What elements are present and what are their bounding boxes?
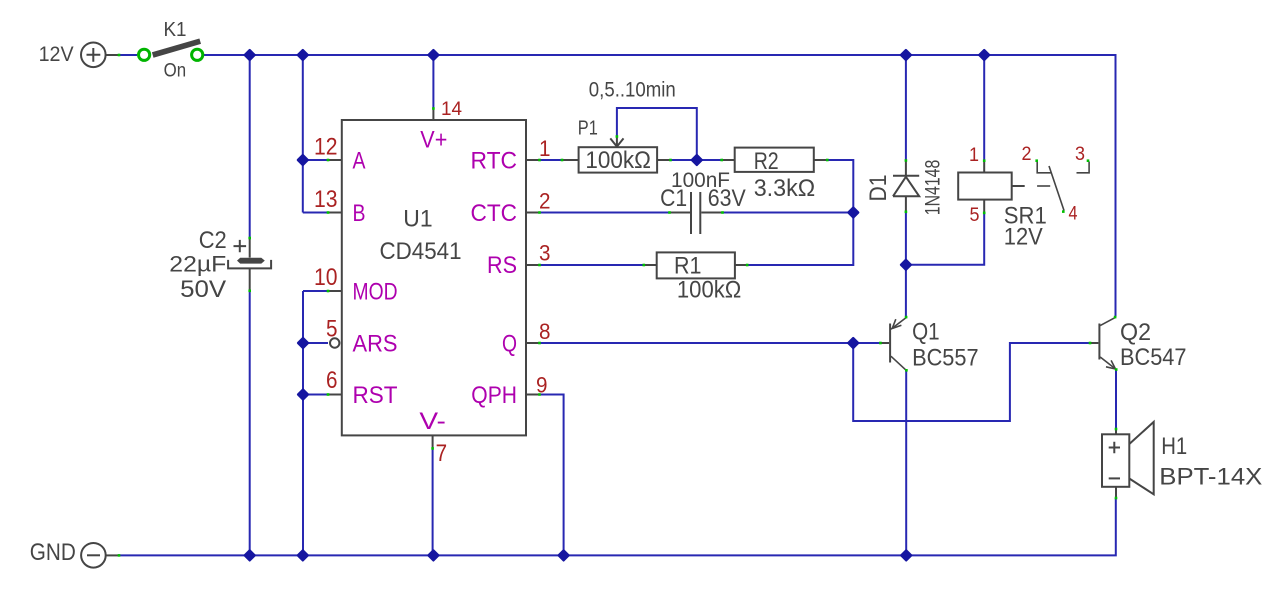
svg-text:14: 14 [441,99,462,120]
svg-text:R1: R1 [674,253,702,280]
svg-text:8: 8 [539,319,551,344]
svg-text:CTC: CTC [471,200,518,227]
svg-text:BPT-14X: BPT-14X [1159,464,1262,491]
svg-text:5: 5 [970,205,980,226]
svg-text:K1: K1 [164,19,187,41]
svg-text:Q: Q [502,330,517,357]
svg-text:4: 4 [1069,204,1078,225]
svg-text:On: On [164,60,187,81]
svg-text:3.3kΩ: 3.3kΩ [754,175,816,202]
svg-text:6: 6 [326,367,338,394]
svg-text:P1: P1 [578,118,598,140]
svg-text:D1: D1 [865,175,892,202]
svg-text:12: 12 [314,134,338,161]
svg-text:R2: R2 [754,148,779,175]
svg-text:63V: 63V [708,185,746,212]
svg-text:ARS: ARS [353,330,398,357]
svg-text:RS: RS [487,252,517,279]
svg-text:9: 9 [536,373,548,398]
svg-text:GND: GND [30,539,76,566]
svg-text:13: 13 [314,186,338,213]
svg-text:0,5..10min: 0,5..10min [589,79,676,102]
svg-text:V+: V+ [420,127,447,154]
svg-text:H1: H1 [1161,433,1187,460]
svg-text:100kΩ: 100kΩ [677,277,741,304]
svg-text:BC547: BC547 [1120,344,1187,371]
svg-text:1: 1 [539,136,551,161]
svg-text:QPH: QPH [471,382,517,409]
svg-text:B: B [353,200,366,227]
svg-text:10: 10 [314,264,338,291]
svg-text:5: 5 [326,316,338,343]
svg-text:100kΩ: 100kΩ [585,147,651,174]
svg-text:1: 1 [969,145,979,166]
svg-text:3: 3 [1075,144,1085,165]
svg-text:12V: 12V [39,43,74,66]
svg-text:CD4541: CD4541 [380,238,462,265]
svg-text:C2: C2 [199,227,227,254]
svg-text:BC557: BC557 [912,345,979,372]
svg-text:C1: C1 [660,185,687,212]
svg-text:12V: 12V [1004,224,1043,251]
svg-text:U1: U1 [403,206,432,233]
svg-text:22µF: 22µF [169,252,226,277]
svg-text:Q1: Q1 [912,319,940,346]
svg-text:2: 2 [1022,144,1032,165]
svg-text:A: A [353,147,366,174]
svg-text:Q2: Q2 [1120,319,1151,346]
svg-text:7: 7 [436,440,448,467]
svg-text:RST: RST [353,382,398,409]
svg-text:1N4148: 1N4148 [922,160,945,216]
svg-text:V-: V- [419,408,446,435]
svg-text:MOD: MOD [353,278,398,305]
svg-text:2: 2 [539,189,551,214]
svg-text:3: 3 [539,241,551,266]
svg-text:RTC: RTC [471,147,518,174]
svg-text:50V: 50V [180,276,226,303]
